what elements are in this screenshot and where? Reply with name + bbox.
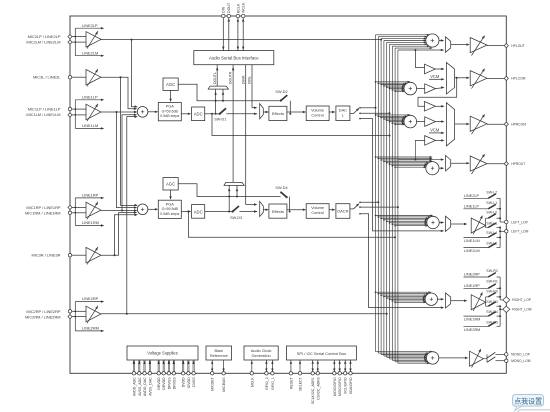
- block Audio Clock Generation: [244, 346, 278, 360]
- collector wires RIGHT_LO: [499, 277, 501, 300]
- svg-text:MIC1LM / LINE1LM: MIC1LM / LINE1LM: [26, 112, 60, 117]
- wire SW-D2 to effects output: [289, 101, 291, 114]
- wire mux to Effects L: [263, 111, 266, 113]
- bypass arrow LINE2RP: [74, 302, 76, 331]
- svg-text:LINE1RP: LINE1RP: [82, 193, 99, 198]
- wire mux to HPRCOM driver: [455, 123, 468, 125]
- svg-text:RIGHT_LOM: RIGHT_LOM: [512, 308, 531, 312]
- svg-text:CS/I2C_ADR0: CS/I2C_ADR0: [316, 377, 320, 400]
- bus bottom bends into MONO mixer: [376, 351, 432, 353]
- svg-text:Control: Control: [311, 210, 324, 215]
- wire mux to Effects R: [263, 209, 266, 211]
- svg-text:AVSS_DAC: AVSS_DAC: [148, 377, 152, 396]
- wire RIGHT_LO mixer to mux: [438, 298, 443, 300]
- chip boundary: [70, 16, 506, 373]
- wire MIC1R to left record mixer: [121, 210, 123, 212]
- wire mux to LEFT_LO driver: [451, 223, 465, 225]
- wire MIC1L to left record mixer: [101, 111, 135, 113]
- summing node HPRCOM mixer: [404, 115, 417, 128]
- wire MIC3R to left record mixer branch: [114, 254, 116, 256]
- bypass arrow LINE2LP: [74, 28, 76, 56]
- svg-text:IOVDD: IOVDD: [187, 377, 191, 389]
- bypass arrow LINE1LM: [75, 127, 101, 129]
- vcm buffer HPRCOM input C: [425, 136, 436, 146]
- vcm buffer HPLCOM input A: [425, 64, 436, 74]
- svg-text:SELECT: SELECT: [299, 376, 303, 390]
- switch DACR output: [350, 208, 354, 210]
- svg-text:MIC2LP / LINE2LP: MIC2LP / LINE2LP: [28, 34, 61, 39]
- svg-text:DOUTL: DOUTL: [213, 72, 217, 84]
- svg-text:Control: Control: [311, 112, 324, 117]
- svg-text:LINE2RM: LINE2RM: [82, 326, 99, 331]
- block ADC R: [192, 205, 205, 219]
- block Effects L: [269, 106, 287, 120]
- pin HPRCOM: [504, 122, 508, 126]
- mux HPROUT: [446, 155, 451, 171]
- pin BCLK: [237, 16, 239, 51]
- vcm buffer HPLCOM input B: [417, 88, 425, 90]
- wire driver node LEFT_LO: [485, 218, 487, 227]
- wire Volume Control R to DACR: [329, 209, 333, 211]
- svg-text:HPLCOM: HPLCOM: [511, 77, 525, 81]
- bypass arrow LINE1RP: [74, 198, 76, 226]
- svg-text:LEFT_LOP: LEFT_LOP: [511, 220, 528, 224]
- wire DAC L route A: [360, 107, 376, 109]
- wire driver to HPLCOM pin: [487, 77, 506, 79]
- bypass arrow LINE1RM: [75, 225, 101, 227]
- svg-text:LINE1LM: LINE1LM: [464, 239, 480, 243]
- collector wires LEFT_LO: [499, 198, 501, 222]
- wire driver to HPROUT pin: [487, 163, 506, 165]
- svg-text:Effects: Effects: [272, 209, 284, 214]
- svg-text:MIC3L / LINE3L: MIC3L / LINE3L: [33, 75, 61, 80]
- wire ADC L output: [205, 113, 220, 115]
- block Audio Serial Bus Interface U-ASBI: [194, 51, 274, 65]
- svg-text:0.5dB steps: 0.5dB steps: [160, 212, 179, 216]
- switch DAC L output: [350, 113, 354, 115]
- wire ADC L to DOUTL mux: [215, 89, 217, 114]
- pin RESET: [290, 360, 292, 372]
- svg-text:LINE2LP: LINE2LP: [82, 23, 98, 28]
- svg-text:DINL: DINL: [248, 76, 252, 84]
- net DINL from serial interface: [251, 65, 253, 108]
- mux DOUTL select: [208, 86, 228, 89]
- wire MIC1R to right record mixer: [101, 210, 135, 212]
- wire driver to HPLOUT pin: [487, 45, 506, 47]
- block DACR: [336, 204, 350, 219]
- pin AVDD_ADC: [132, 360, 134, 372]
- wire MIC3R to right record mixer: [101, 213, 135, 256]
- wire VCM to HPRCOM mux: [429, 132, 443, 134]
- pin HPROUT: [504, 162, 508, 166]
- svg-text:MIC2RM / LINE2RM: MIC2RM / LINE2RM: [25, 314, 60, 319]
- svg-text:LINE1LP: LINE1LP: [464, 205, 480, 209]
- svg-text:MICBIAS: MICBIAS: [222, 377, 226, 392]
- switch MONO_LOP: [483, 358, 487, 360]
- svg-text:MIC1LP / LINE1LP: MIC1LP / LINE1LP: [28, 107, 61, 112]
- wire AGC L to PGA L: [170, 90, 172, 100]
- svg-text:LINE1RM: LINE1RM: [82, 220, 99, 225]
- svg-text:SW-R1: SW-R1: [486, 280, 498, 284]
- svg-text:LINE1RP: LINE1RP: [464, 284, 480, 288]
- pin MISO/GPIO: [339, 360, 341, 372]
- wire AGC L monitor / bypass line: [178, 84, 280, 101]
- svg-text:SW-D1: SW-D1: [214, 117, 226, 121]
- wire LEFT_LO mixer to mux: [439, 222, 443, 224]
- svg-text:AVSS_ADC: AVSS_ADC: [138, 377, 142, 396]
- pin DRVDD: [157, 360, 159, 372]
- svg-text:SW-D3: SW-D3: [230, 216, 242, 220]
- svg-text:LINE2LM: LINE2LM: [464, 249, 480, 253]
- pin MCLK: [251, 360, 253, 372]
- wire DOUTL to serial interface: [216, 65, 218, 86]
- svg-text:MICDET: MICDET: [211, 376, 215, 390]
- mux HPRCOM: [446, 103, 454, 146]
- pin MONO_LOM: [505, 359, 508, 362]
- svg-text:RIGHT_LOP: RIGHT_LOP: [512, 298, 531, 302]
- svg-text:MISO/GPIO: MISO/GPIO: [338, 377, 342, 396]
- wire SW-D4 to effects output R: [289, 197, 291, 212]
- wire ADC R output: [205, 211, 233, 213]
- mux HPLCOM: [446, 62, 454, 94]
- svg-text:SDA/GPIO: SDA/GPIO: [349, 377, 353, 394]
- wire PGA L bypass to bus: [212, 114, 390, 136]
- wire loopback to DOUTR mux: [236, 185, 238, 196]
- wire SW-D1 to effects mux L: [226, 113, 257, 115]
- wire loopback to DOUTL mux: [222, 89, 224, 101]
- svg-text:DVSS: DVSS: [192, 377, 196, 387]
- svg-text:LINE1RM: LINE1RM: [464, 318, 480, 322]
- mux effects input L: [260, 104, 264, 119]
- pin DIN: [222, 16, 224, 51]
- vcm buffer HPRCOM input A: [425, 102, 436, 112]
- svg-text:DVDD: DVDD: [182, 377, 186, 387]
- svg-text:SCLK/I2C_ADR1: SCLK/I2C_ADR1: [311, 377, 315, 404]
- wire Effects R to Volume Control R: [287, 209, 304, 211]
- pin WCLK: [242, 16, 244, 51]
- bus line 9 direct to HPL output mux: [398, 49, 443, 51]
- svg-text:ADC: ADC: [194, 112, 203, 117]
- svg-text:AVDD_DAC: AVDD_DAC: [143, 377, 147, 396]
- pin IOVDD: [187, 360, 189, 372]
- op-amp HPLOUT driver: [470, 38, 487, 53]
- svg-text:DACR: DACR: [337, 209, 348, 214]
- svg-text:MIC1RP / LINE1RP: MIC1RP / LINE1RP: [26, 205, 60, 210]
- pin LEFT_LOP: [500, 221, 506, 223]
- svg-text:DINR: DINR: [241, 75, 245, 84]
- wire PGA R to ADC R: [181, 211, 189, 213]
- svg-text:GPIO_2: GPIO_2: [265, 377, 269, 390]
- summing node right record mixer: [137, 204, 148, 215]
- switch MONO_LOM: [487, 357, 495, 362]
- svg-text:MOSI/GPIO: MOSI/GPIO: [333, 377, 337, 396]
- svg-text:0.5dB steps: 0.5dB steps: [160, 114, 179, 118]
- svg-text:LINE2RP: LINE2RP: [82, 296, 99, 301]
- switch SW-D2: [281, 95, 287, 100]
- svg-text:ADC: ADC: [194, 209, 203, 214]
- bus taps into HPRCOM mixer: [375, 114, 377, 116]
- wire buffer to HPLCOM mux: [435, 68, 443, 70]
- svg-text:MONO_LOP: MONO_LOP: [511, 353, 530, 357]
- wire driver to HPRCOM pin: [487, 123, 506, 125]
- wire DOUTR to serial interface: [232, 65, 234, 183]
- op-amp RIGHT_LO driver: [471, 295, 485, 310]
- svg-text:AGC: AGC: [166, 82, 175, 87]
- bypass arrow LINE2RM: [75, 330, 101, 332]
- wire DAC L direct to line out mux: [360, 119, 443, 231]
- op-amp HPRCOM driver: [470, 116, 487, 131]
- svg-text:DIN: DIN: [222, 6, 226, 13]
- summing node HPLCOM mixer: [404, 82, 417, 95]
- watermark bubble: [513, 395, 544, 411]
- analog routing bus vertical lines: [375, 35, 377, 352]
- svg-text:AVDD_ADC: AVDD_ADC: [132, 377, 136, 396]
- svg-text:DRVDD: DRVDD: [157, 377, 161, 390]
- bus taps into LEFT_LO mixer: [375, 215, 377, 217]
- svg-text:AGC: AGC: [166, 182, 175, 187]
- wire PGA R bypass to bus: [188, 212, 395, 238]
- svg-text:SW-D4: SW-D4: [275, 186, 287, 190]
- svg-text:DOUTR: DOUTR: [229, 71, 233, 84]
- block DAC L: [336, 106, 350, 121]
- wire MIC2L to left record mixer: [131, 39, 133, 41]
- wire DAC L route B: [360, 112, 390, 114]
- wire MIC2L output to bus: [101, 39, 381, 41]
- svg-text:G=59.5dB: G=59.5dB: [162, 207, 179, 211]
- wire MIC3L output: [101, 77, 135, 109]
- wire driver node RIGHT_LO: [485, 297, 487, 306]
- pin SCL/GPIO: [344, 360, 346, 372]
- svg-text:PGA: PGA: [166, 201, 175, 206]
- pin AVSS_DAC: [148, 360, 150, 372]
- pin AVDD_DAC: [143, 360, 145, 372]
- svg-text:VCM: VCM: [430, 74, 440, 79]
- svg-text:Audio Serial Bus Interface: Audio Serial Bus Interface: [209, 56, 259, 61]
- block AGC R: [163, 178, 178, 190]
- block Voltage Supplies: [127, 346, 198, 360]
- wire ADC R to DOUTR mux: [228, 185, 230, 211]
- pin DVDD: [182, 360, 184, 372]
- summing node HPL mixer: [426, 34, 439, 47]
- mux DOUTR select: [224, 182, 244, 185]
- svg-text:DRVDD: DRVDD: [162, 377, 166, 390]
- wire mux to HPLOUT driver: [451, 44, 468, 46]
- op-amp MONO driver: [470, 351, 484, 366]
- wire AGC R to PGA R: [170, 190, 172, 198]
- op-amp HPLCOM driver: [470, 71, 487, 86]
- wire mux to RIGHT_LO driver: [451, 300, 465, 302]
- pin MICDET: [211, 360, 213, 372]
- svg-text:Generation: Generation: [251, 353, 270, 358]
- pin RIGHT_LOP: [500, 299, 503, 301]
- bus top bends into HPL mixer: [376, 34, 429, 36]
- svg-text:SW-D2: SW-D2: [275, 90, 287, 94]
- wire DACR route A: [360, 201, 378, 203]
- bus line direct to HPR output mux: [398, 159, 443, 161]
- op-amp LEFT_LO driver: [471, 218, 485, 233]
- block Volume Control R: [306, 204, 329, 219]
- svg-text:MIC1RM / LINE1RM: MIC1RM / LINE1RM: [25, 210, 60, 215]
- pin SCLK/I2C_ADR1: [312, 360, 314, 372]
- wire VCM to HPLCOM mux: [429, 78, 443, 80]
- svg-text:LINE2LP: LINE2LP: [464, 194, 480, 198]
- wire DACR direct to line out mux: [360, 214, 443, 308]
- wire HPRCOM feedback riser: [414, 140, 416, 160]
- wire MIC2R output to bus: [101, 313, 387, 315]
- wire HPLCOM feedback to HPRCOM: [418, 78, 457, 107]
- svg-text:HPRCOM: HPRCOM: [511, 123, 526, 127]
- pin GPIO_1: [271, 360, 273, 372]
- svg-text:MIC3R / LINE3R: MIC3R / LINE3R: [32, 253, 61, 258]
- summing node HPR mixer: [426, 162, 439, 175]
- svg-text:BCLK: BCLK: [236, 3, 240, 13]
- pin RIGHT_LOM: [500, 308, 503, 310]
- pin HPLCOM: [504, 76, 508, 80]
- block AGC L: [163, 78, 178, 90]
- wire MIC3L to right record mixer: [120, 76, 122, 78]
- svg-text:SW-R0: SW-R0: [486, 289, 498, 293]
- mux RIGHT_LO: [446, 293, 451, 308]
- svg-text:LINE2LM: LINE2LM: [82, 50, 98, 55]
- wire MIC2R to left record mixer: [126, 313, 128, 315]
- block Bias Reference: [206, 346, 232, 360]
- bus taps into HPLCOM mixer: [375, 81, 377, 83]
- pin HPLOUT: [504, 44, 508, 48]
- pin DOUT: [228, 16, 230, 51]
- pin MICBIAS: [223, 360, 225, 372]
- wire HPR mixer to mux: [439, 167, 443, 169]
- svg-text:LINE1LP: LINE1LP: [82, 94, 98, 99]
- pin DRVDD: [162, 360, 164, 372]
- wire mixer to PGA R: [148, 208, 156, 210]
- svg-text:HPLOUT: HPLOUT: [511, 44, 524, 48]
- svg-text:DRVSS: DRVSS: [167, 377, 171, 390]
- pin SDA/GPIO: [350, 360, 352, 372]
- summing node LEFT_LO mixer: [427, 216, 439, 228]
- wire PGA L to ADC L: [181, 113, 189, 115]
- pin LEFT_LOM: [500, 230, 506, 232]
- summing node RIGHT_LO mixer: [425, 293, 437, 305]
- wire Volume Control L to DAC L: [329, 111, 333, 113]
- svg-text:MIC2LM / LINE2LM: MIC2LM / LINE2LM: [26, 40, 60, 45]
- block ADC L: [192, 107, 205, 121]
- wire mux to HPLCOM driver: [455, 77, 468, 79]
- pin CS/I2C_ADR0: [317, 360, 319, 372]
- partial bubble bottom edge: [518, 410, 550, 412]
- svg-text:PGA: PGA: [166, 104, 175, 109]
- svg-text:MIC2RP / LINE2RP: MIC2RP / LINE2RP: [26, 309, 60, 314]
- svg-text:Effects: Effects: [272, 111, 284, 116]
- block Volume Control L: [306, 106, 329, 121]
- svg-text:MONO_LOM: MONO_LOM: [511, 359, 530, 363]
- bypass arrow LINE2LM: [75, 55, 101, 57]
- svg-text:Reference: Reference: [210, 353, 228, 358]
- wire SW-D3 to effects mux R: [239, 211, 257, 213]
- switch SW-D3: [233, 206, 239, 212]
- svg-text:LINE1LM: LINE1LM: [82, 123, 98, 128]
- svg-text:LINE2RP: LINE2RP: [464, 273, 480, 277]
- svg-text:VCM: VCM: [430, 127, 440, 132]
- wire DACR route B: [360, 206, 398, 208]
- mux effects input R: [260, 201, 264, 216]
- svg-text:GPIO_1: GPIO_1: [271, 377, 275, 390]
- svg-text:DRVSS: DRVSS: [172, 377, 176, 390]
- svg-text:LEFT_LOM: LEFT_LOM: [511, 230, 528, 234]
- wire AGC R monitor / bypass line: [178, 184, 280, 197]
- summing node MONO mixer: [426, 352, 438, 364]
- svg-text:HPROUT: HPROUT: [511, 162, 525, 166]
- svg-text:RESET: RESET: [289, 376, 293, 389]
- svg-text:SPI / I2C Serial Control Bus: SPI / I2C Serial Control Bus: [297, 351, 346, 356]
- svg-text:点我设置: 点我设置: [514, 396, 542, 405]
- bus taps into HPR mixer: [375, 156, 377, 158]
- block PGA L: [158, 103, 181, 121]
- pin AVSS_ADC: [138, 360, 140, 372]
- svg-text:SW-R2: SW-R2: [486, 269, 498, 273]
- mux HPLOUT: [446, 37, 451, 53]
- svg-text:MCLK: MCLK: [250, 377, 254, 387]
- pin DRVSS: [172, 360, 174, 372]
- svg-text:DOUT: DOUT: [227, 2, 231, 13]
- block PGA R: [158, 200, 181, 218]
- op-amp HPROUT driver: [470, 156, 487, 171]
- switch SW-D4: [280, 192, 286, 197]
- pin MOSI/GPIO: [333, 360, 335, 372]
- block SPI I2C Serial Control Bus: [286, 346, 356, 360]
- block Effects R: [269, 204, 287, 218]
- svg-text:SCL/GPIO: SCL/GPIO: [344, 377, 348, 394]
- pin DRVSS: [167, 360, 169, 372]
- wire MIC1L to right record mixer: [116, 111, 118, 113]
- svg-text:WCLK: WCLK: [242, 2, 246, 13]
- net DINR from serial interface: [245, 65, 247, 205]
- vcm buffer HPRCOM input B: [417, 121, 425, 123]
- mux LEFT_LO: [446, 216, 451, 231]
- bus taps into RIGHT_LO mixer: [375, 291, 377, 293]
- bypass arrow LINE1LP: [74, 100, 76, 129]
- pin SELECT: [299, 360, 301, 372]
- svg-text:Voltage Supplies: Voltage Supplies: [147, 351, 178, 356]
- pin GPIO_2: [265, 360, 267, 372]
- wire Effects L to Volume Control L: [287, 111, 304, 113]
- switch SW-D1: [220, 108, 226, 114]
- wire mixer to PGA L: [148, 111, 156, 113]
- pin MONO_LOP: [505, 353, 508, 356]
- svg-text:LINE2RM: LINE2RM: [464, 328, 480, 332]
- wire MONO mixer to driver: [439, 357, 466, 359]
- summing node left record mixer: [137, 107, 148, 118]
- wire mux to HPROUT driver: [451, 162, 468, 164]
- wire HPL tap to HPLCOM mux: [415, 50, 422, 67]
- wire HPL mixer to mux: [439, 40, 443, 42]
- pin DVSS: [192, 360, 194, 372]
- svg-text:G=59.5dB: G=59.5dB: [162, 109, 179, 113]
